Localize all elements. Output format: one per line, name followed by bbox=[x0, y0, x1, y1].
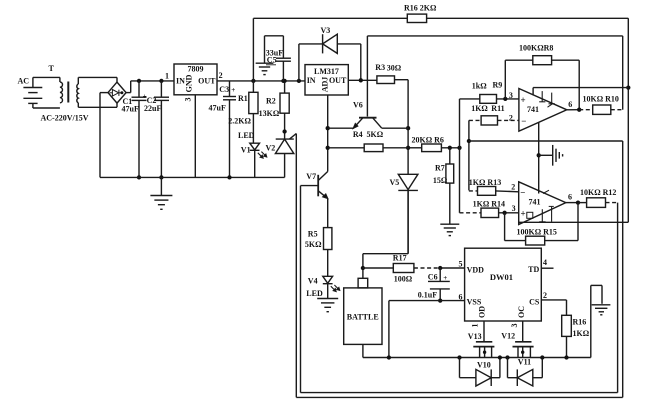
ground battery minus (right stub) bbox=[591, 285, 611, 357]
resistor R6 20K bbox=[408, 136, 462, 152]
svg-text:3: 3 bbox=[510, 324, 519, 328]
svg-text:AC-220V/15V: AC-220V/15V bbox=[41, 114, 89, 123]
svg-text:1: 1 bbox=[165, 72, 169, 81]
wire secondary to bridge bbox=[78, 77, 117, 107]
mosfet V13 bbox=[468, 321, 495, 358]
capacitor C5 33uF with ground bbox=[256, 36, 291, 83]
resistor R11 1K to op-amp1 pin2 bbox=[467, 104, 519, 190]
resistor R15 100K feedback op-amp2 bbox=[505, 203, 578, 245]
svg-text:ADJ: ADJ bbox=[321, 77, 330, 93]
regulator U 7809 bbox=[165, 64, 223, 102]
svg-text:V10: V10 bbox=[477, 360, 491, 369]
wire rail riser to R16 2K line bbox=[253, 18, 407, 81]
mosfet V12 bbox=[501, 321, 533, 358]
chip DW01 bbox=[459, 248, 548, 327]
resistor R4 5K bbox=[328, 130, 408, 152]
svg-text:100Ω: 100Ω bbox=[394, 275, 413, 284]
wire 7809 OUT 9V rail bbox=[217, 80, 305, 82]
svg-text:VDD: VDD bbox=[467, 265, 485, 274]
svg-text:V2: V2 bbox=[266, 144, 276, 153]
wire 7809 pin3 to ground rail bbox=[194, 95, 196, 178]
bridge rectifier bbox=[108, 82, 126, 103]
svg-text:47uF: 47uF bbox=[122, 104, 139, 113]
regulator U2 LM317 bbox=[305, 65, 348, 95]
svg-text:V11: V11 bbox=[518, 357, 531, 366]
svg-text:1KΩ R14: 1KΩ R14 bbox=[473, 199, 505, 208]
svg-text:741: 741 bbox=[529, 198, 541, 207]
svg-text:C3: C3 bbox=[219, 85, 229, 94]
resistor R12 10K bbox=[578, 188, 618, 208]
wire TD pin stub bbox=[541, 267, 553, 269]
svg-text:1KΩ: 1KΩ bbox=[471, 104, 488, 113]
svg-text:6: 6 bbox=[568, 100, 572, 109]
op-amp U1 741 bbox=[509, 88, 572, 132]
svg-text:BATTLE: BATTLE bbox=[347, 313, 379, 322]
capacitor C2 22uF bbox=[144, 79, 169, 180]
wire op-amp2 output node bbox=[566, 200, 580, 204]
wire right-side drop of R16 2K line (op-amp supply) bbox=[626, 18, 630, 222]
wire inner top loop to V6 base bbox=[367, 36, 622, 117]
transformer T primary winding bbox=[49, 64, 63, 103]
svg-text:R16 2KΩ: R16 2KΩ bbox=[404, 4, 437, 13]
svg-text:OUT: OUT bbox=[329, 76, 347, 85]
resistor R2 13K bbox=[259, 79, 290, 139]
svg-text:LED: LED bbox=[306, 289, 323, 298]
svg-text:R11: R11 bbox=[491, 104, 504, 113]
resistor R7 15ohm with ground bbox=[433, 148, 459, 236]
svg-text:C5: C5 bbox=[267, 56, 277, 65]
svg-text:+: + bbox=[443, 274, 447, 282]
svg-text:C6: C6 bbox=[428, 272, 438, 281]
svg-text:V1: V1 bbox=[241, 146, 251, 155]
svg-text:22uF: 22uF bbox=[144, 104, 161, 113]
diode V5 bbox=[390, 174, 418, 253]
diode V11 (body diode of V12) bbox=[505, 355, 544, 386]
resistor R14 1K to op-amp2 pin3 bbox=[460, 199, 519, 217]
svg-text:R17: R17 bbox=[393, 253, 407, 262]
svg-text:5KΩ: 5KΩ bbox=[305, 240, 322, 249]
wire comparator input line to bottom loop bbox=[469, 141, 623, 397]
wire VDD line bbox=[438, 266, 465, 270]
wire R12 to inner bottom loop to V7 base bbox=[301, 186, 618, 393]
diode V10 (body diode of V13) bbox=[457, 355, 502, 386]
resistor R5 5K bbox=[305, 228, 332, 277]
svg-text:R2: R2 bbox=[266, 97, 276, 106]
svg-text:V5: V5 bbox=[390, 178, 400, 187]
svg-text:30Ω: 30Ω bbox=[387, 64, 402, 73]
svg-text:LM317: LM317 bbox=[314, 67, 339, 76]
svg-text:1KΩ: 1KΩ bbox=[573, 329, 590, 338]
svg-text:2: 2 bbox=[219, 71, 223, 80]
svg-text:V12: V12 bbox=[501, 332, 515, 341]
svg-text:2: 2 bbox=[509, 114, 513, 123]
svg-text:100KΩR8: 100KΩR8 bbox=[519, 44, 553, 53]
resistor R13 1K to op-amp2 pin2 bbox=[469, 178, 519, 195]
svg-text:V3: V3 bbox=[321, 26, 331, 35]
svg-text:R16: R16 bbox=[573, 318, 587, 327]
svg-text:10KΩ R12: 10KΩ R12 bbox=[580, 188, 616, 197]
svg-text:6: 6 bbox=[459, 292, 463, 301]
resistor R16 2K (top) bbox=[404, 4, 628, 23]
wire bridge minus to ground rail bbox=[100, 93, 108, 178]
thyristor V2 bbox=[266, 129, 297, 177]
wire battery plus node bbox=[361, 190, 408, 278]
svg-text:4: 4 bbox=[543, 258, 547, 267]
svg-text:V13: V13 bbox=[468, 332, 482, 341]
ground rail of power section bbox=[100, 176, 285, 178]
svg-text:−: − bbox=[520, 187, 525, 197]
svg-text:3: 3 bbox=[184, 98, 193, 102]
svg-text:6: 6 bbox=[568, 193, 572, 202]
svg-text:1KΩ R13: 1KΩ R13 bbox=[469, 178, 501, 187]
svg-text:DW01: DW01 bbox=[490, 272, 513, 282]
svg-text:CS: CS bbox=[529, 297, 540, 306]
svg-text:1kΩ: 1kΩ bbox=[472, 82, 487, 91]
wire VSS line to battery minus rail bbox=[389, 301, 465, 358]
LED V1 bbox=[238, 131, 267, 178]
wire op-amp1 pin4 down / ground tap bbox=[537, 122, 553, 193]
svg-text:−: − bbox=[521, 116, 526, 126]
svg-text:VSS: VSS bbox=[467, 298, 482, 307]
svg-text:R4: R4 bbox=[353, 130, 363, 139]
svg-text:+: + bbox=[521, 95, 526, 105]
svg-text:R7: R7 bbox=[435, 163, 445, 172]
svg-text:OUT: OUT bbox=[198, 76, 216, 85]
svg-text:2.2KΩ: 2.2KΩ bbox=[228, 117, 251, 126]
transistor V6 bbox=[328, 101, 408, 129]
resistor R1 2.2K bbox=[228, 79, 258, 143]
wire bridge plus to +rail bbox=[126, 81, 174, 93]
svg-text:R9: R9 bbox=[493, 81, 503, 90]
svg-text:+: + bbox=[231, 86, 235, 94]
svg-text:1: 1 bbox=[471, 324, 480, 328]
svg-text:13KΩ: 13KΩ bbox=[259, 109, 280, 118]
wire R3 output vertical to divider bbox=[406, 80, 410, 175]
AC source (battery-style symbol) with label AC bbox=[18, 77, 43, 109]
svg-text:R5: R5 bbox=[308, 229, 318, 238]
svg-text:3: 3 bbox=[509, 91, 513, 100]
svg-text:100KΩ R15: 100KΩ R15 bbox=[517, 227, 557, 236]
diode V3 across LM317 bbox=[297, 26, 361, 83]
svg-text:R1: R1 bbox=[238, 94, 248, 103]
svg-text:7809: 7809 bbox=[188, 65, 204, 74]
svg-text:OD: OD bbox=[478, 306, 487, 318]
svg-text:5KΩ: 5KΩ bbox=[367, 130, 384, 139]
svg-text:2: 2 bbox=[511, 183, 515, 192]
ground power section bbox=[150, 177, 172, 209]
op-amp U2 741 bbox=[511, 182, 572, 225]
transistor V7 bbox=[301, 172, 328, 228]
svg-text:T: T bbox=[49, 64, 55, 73]
wire divider node vertical (R9/R14 feed) bbox=[459, 99, 461, 213]
wire op-amp supply under op-amp2 bbox=[519, 221, 629, 223]
resistor R9 1k to op-amp1 pin3 bbox=[460, 81, 519, 104]
svg-text:2: 2 bbox=[543, 291, 547, 300]
svg-text:IN: IN bbox=[307, 76, 316, 85]
svg-text:5: 5 bbox=[459, 259, 463, 268]
svg-text:V7: V7 bbox=[306, 172, 316, 181]
ground mid (sideways) bbox=[552, 145, 554, 166]
transformer core bbox=[67, 82, 69, 103]
LED V4 with ground bbox=[306, 276, 340, 311]
svg-text:OC: OC bbox=[517, 306, 526, 318]
resistor R8 100K feedback op-amp1 bbox=[505, 44, 579, 110]
capacitor C6 0.1uF bbox=[418, 268, 450, 303]
wire battery minus bottom rail bbox=[363, 355, 591, 359]
svg-text:741: 741 bbox=[527, 105, 539, 114]
svg-text:TD: TD bbox=[528, 265, 539, 274]
svg-text:AC: AC bbox=[18, 77, 30, 86]
svg-text:47uF: 47uF bbox=[209, 104, 226, 113]
resistor R3 30ohm bbox=[375, 63, 408, 84]
svg-text:V6: V6 bbox=[353, 101, 363, 110]
wire LM317 ADJ node vertical bbox=[326, 95, 330, 172]
resistor R10 10K bbox=[579, 95, 623, 115]
wire CS pin to R16 bbox=[541, 300, 566, 315]
capacitor C3 47uF bbox=[209, 81, 237, 180]
wire LM317 OUT to R3 bbox=[348, 78, 377, 82]
svg-text:10KΩ R10: 10KΩ R10 bbox=[583, 95, 619, 104]
wire op-amp1 output node bbox=[567, 108, 582, 112]
svg-text:0.1uF: 0.1uF bbox=[418, 290, 437, 299]
wire outer bottom loop to V2 gate bbox=[296, 134, 622, 398]
resistor R16 1K (bottom) bbox=[562, 315, 590, 359]
svg-text:LED: LED bbox=[238, 131, 255, 140]
svg-text:GND: GND bbox=[185, 74, 194, 92]
wire AC source loop bbox=[33, 77, 60, 108]
transformer T secondary winding bbox=[77, 77, 78, 107]
svg-text:+: + bbox=[521, 208, 526, 218]
svg-text:3: 3 bbox=[512, 204, 516, 213]
resistor R17 100ohm bbox=[363, 253, 440, 283]
svg-text:R3: R3 bbox=[375, 63, 385, 72]
capacitor C1 47uF bbox=[122, 79, 147, 180]
wire op-amp1 pin7 supply to 2K line bbox=[533, 87, 628, 89]
battery BATTLE bbox=[344, 278, 382, 357]
svg-text:V4: V4 bbox=[308, 277, 318, 286]
